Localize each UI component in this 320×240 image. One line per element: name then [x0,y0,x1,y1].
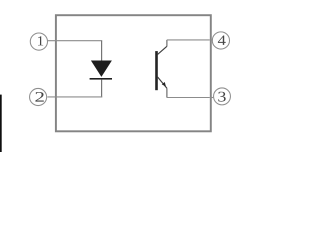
pin number 1 [38,36,43,45]
wire package edge to pin3 stub [210,97,213,99]
wire diode cathode lead (vertical) [101,80,103,98]
wire diode to pin2 (horizontal) [47,96,102,98]
pin 2 circle [30,88,47,105]
wire package edge to pin4 stub [210,39,213,41]
wire pin1 to diode anode (horizontal) [48,40,102,42]
LED diode D1 cathode bar [90,78,112,80]
pin number 3 [218,92,225,102]
pin number 2 [35,92,43,102]
pin 1 circle [30,33,47,50]
wire collector vertical [166,40,168,47]
pin number 4 [218,36,226,45]
phototransistor Q1 base bar [155,51,158,90]
wire diode anode lead (vertical) [101,41,103,61]
package outline U1 [56,15,211,131]
transistor collector diagonal [157,46,167,54]
LED diode D1 triangle [91,61,112,77]
pin 3 circle [214,88,231,105]
wire emitter to package edge (horizontal) [167,97,210,99]
transistor emitter diagonal [158,77,167,88]
stray border fragment at image left edge [0,95,2,152]
pin 4 circle [212,32,229,49]
wire emitter vertical [166,88,168,97]
wire collector to package edge (horizontal) [167,39,210,41]
transistor emitter arrowhead [162,82,166,87]
